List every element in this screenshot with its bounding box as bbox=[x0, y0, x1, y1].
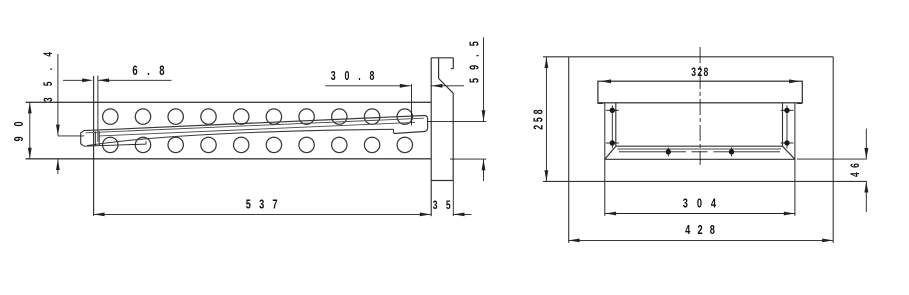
blade strip inner top line bbox=[86, 118, 424, 133]
bottom strip top edge bbox=[616, 145, 783, 147]
dim 304 line bbox=[605, 213, 795, 215]
svg-text:6 . 8: 6 . 8 bbox=[132, 63, 165, 78]
dim 46 lines bbox=[797, 129, 867, 213]
svg-text:9 0: 9 0 bbox=[13, 121, 27, 141]
svg-text:3 5: 3 5 bbox=[433, 198, 451, 212]
dim 35.4 arrows bbox=[56, 125, 60, 170]
dim 537 line bbox=[94, 213, 431, 215]
screws bottom strip bbox=[668, 148, 731, 157]
dim 35.4 lines bbox=[58, 54, 84, 174]
svg-text:3 0 4: 3 0 4 bbox=[683, 197, 717, 211]
left mitre diagonal bbox=[605, 146, 616, 159]
screws left plate bbox=[606, 105, 619, 148]
dim 328 arrows bbox=[600, 79, 800, 83]
dim 90 arrows bbox=[28, 102, 32, 158]
hook inner edge bbox=[438, 58, 440, 79]
svg-text:5 9 . 5: 5 9 . 5 bbox=[468, 41, 482, 83]
right side plate outer edge with 304 extension bbox=[794, 103, 796, 216]
dim 258 lines bbox=[545, 57, 547, 181]
svg-text:4 2 8: 4 2 8 bbox=[685, 224, 715, 238]
svg-text:258: 258 bbox=[532, 109, 546, 129]
panel outline top edge bbox=[543, 56, 833, 58]
hook plate top edge bbox=[431, 57, 453, 59]
hook bend diagonal bbox=[439, 79, 454, 94]
panel left edge extended to 428 dim bbox=[568, 57, 570, 243]
bar left edge extended to dims bbox=[93, 76, 95, 216]
right mitre diagonal bbox=[783, 146, 795, 159]
hole row bottom bbox=[103, 137, 413, 152]
hook right edge extension to 35 dim bbox=[452, 181, 454, 217]
vertical centerline dash-dot bbox=[699, 47, 701, 165]
blade strip curved lower line bbox=[87, 129, 394, 145]
dim 35 tail and arrow bbox=[454, 213, 472, 215]
dim 428 line bbox=[569, 239, 834, 241]
svg-text:3 5 . 4: 3 5 . 4 bbox=[43, 52, 56, 102]
dim 90 line bbox=[29, 102, 31, 158]
blade left clamp lines bbox=[94, 131, 96, 145]
dim 537 arrows bbox=[94, 213, 431, 217]
screws right plate bbox=[781, 105, 794, 148]
blade strip outer outline bbox=[81, 116, 428, 147]
hook bottom edge bbox=[431, 180, 453, 182]
dim 46 arrows bbox=[864, 148, 868, 193]
left side plate inner edge bbox=[615, 103, 617, 146]
hook lip tick bbox=[451, 68, 454, 70]
panel right edge extended to 428 dim bbox=[832, 57, 834, 243]
svg-text:46: 46 bbox=[850, 163, 863, 177]
dim 30.8 arrows bbox=[400, 84, 443, 88]
lintel bar bbox=[598, 81, 802, 103]
bottom strip inner line bbox=[618, 148, 782, 150]
dim 6.8 arrows bbox=[82, 78, 109, 82]
svg-text:5 3 7: 5 3 7 bbox=[246, 198, 278, 212]
svg-text:3 0 . 8: 3 0 . 8 bbox=[331, 69, 375, 83]
bar bottom edge with left extension bbox=[26, 158, 432, 160]
svg-text:328: 328 bbox=[691, 66, 708, 80]
bottom strip centerline dash-dot bbox=[619, 151, 780, 153]
panel outline bottom edge with extensions bbox=[543, 180, 867, 182]
dim 258 arrows bbox=[545, 57, 549, 181]
dim 6.8 line left tail bbox=[63, 79, 172, 81]
dim 59.5 arrows bbox=[482, 110, 486, 170]
right side plate inner edge bbox=[782, 103, 784, 146]
hole row top bbox=[103, 109, 413, 124]
blade strip middle line bbox=[99, 122, 415, 135]
left side plate outer edge with 304 extension bbox=[604, 103, 606, 216]
hook lip right bbox=[452, 58, 454, 69]
hook plate left edge extended to 35 dim bbox=[430, 58, 432, 216]
bar top edge with left extension bbox=[26, 101, 432, 103]
extension line for 6.8 bbox=[97, 76, 99, 143]
blade strip left step bbox=[84, 141, 146, 146]
bottom strip bottom edge bbox=[605, 158, 795, 160]
dim 59.5 lines bbox=[428, 37, 486, 181]
dim 428 arrows bbox=[569, 239, 834, 243]
lintel corner tabs bbox=[598, 102, 802, 103]
blade strip right step bbox=[393, 129, 395, 133]
dim 30.8 line bbox=[325, 84, 464, 126]
hook right edge bbox=[452, 93, 454, 180]
dim 304 arrows bbox=[605, 212, 795, 216]
